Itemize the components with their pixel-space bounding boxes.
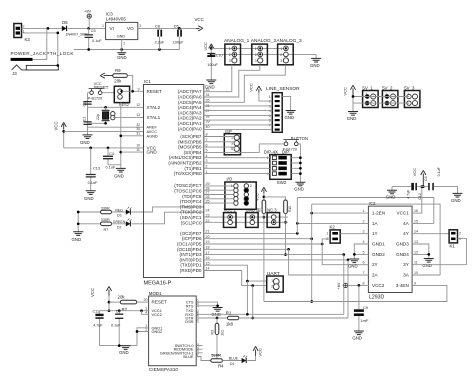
riser RXD to PD3 [343,255,345,315]
connector K1 [449,230,461,249]
svg-text:D1: D1 [230,362,235,366]
wire AREF [88,123,144,127]
svg-text:2.2uF: 2.2uF [155,40,165,44]
ground IC2 right [422,259,433,268]
wire XTAL2 [88,103,144,109]
wire 1A net riser [296,198,434,234]
svg-text:GND: GND [72,237,82,242]
svg-text:2: 2 [280,53,282,57]
resistor R6 330R [78,206,126,213]
svg-text:RED: RED [115,208,123,212]
wires sensor pins 3-8 to PA [204,106,272,130]
svg-text:7: 7 [269,124,271,128]
svg-text:(TDO)PC4: (TDO)PC4 [180,199,202,204]
resistor R1 1k8 on DTR net [196,311,348,327]
svg-text:2A: 2A [372,273,379,278]
net label VCC RESET [94,82,109,90]
svg-text:GND: GND [114,173,124,178]
svg-text:0.1uF: 0.1uF [88,181,98,185]
svg-text:(ADC5)PA5: (ADC5)PA5 [178,100,202,105]
capacitor C11 4.7uF [93,310,104,346]
svg-text:C13: C13 [93,166,100,170]
bus wire PD2 [204,259,350,262]
svg-text:1: 1 [280,47,282,51]
svg-text:GND: GND [117,55,127,60]
wire VCC1 riser [412,185,423,213]
wire AGND [121,132,144,136]
svg-text:SW2: SW2 [277,180,287,185]
svg-text:5V_1: 5V_1 [362,85,373,90]
svg-text:VCC: VCC [256,193,260,201]
svg-text:1: 1 [269,95,271,99]
module MOD1 CIEMSPA310 [144,291,200,373]
svg-text:(TCK)PC2: (TCK)PC2 [180,210,202,215]
wire 3A [412,274,440,276]
wire BLUE pin to R4 [196,357,211,361]
svg-text:R7: R7 [104,228,109,232]
svg-text:4Y: 4Y [403,231,409,236]
svg-text:(TOSC2)PC7: (TOSC2)PC7 [174,183,202,188]
svg-text:330R: 330R [101,218,110,222]
svg-text:1A: 1A [372,221,379,226]
svg-text:4: 4 [363,240,365,244]
svg-text:22p: 22p [96,114,100,120]
svg-text:6: 6 [269,119,271,123]
svg-text:XTAL1: XTAL1 [147,115,161,120]
svg-text:GND: GND [285,115,295,120]
svg-text:11: 11 [196,343,200,347]
capacitor C7 0.1uF [111,310,123,346]
svg-text:2: 2 [459,232,461,236]
ground under C13 [84,191,96,201]
svg-text:(ICP)PD6: (ICP)PD6 [182,236,202,241]
svg-text:AGND: AGND [147,133,158,138]
svg-text:(RXD)PD0: (RXD)PD0 [180,268,202,273]
gnd wire for LEDs [77,211,80,232]
svg-text:VCC: VCC [342,87,347,96]
wires GND3 GND4 [412,244,430,258]
svg-text:VI: VI [110,26,114,31]
svg-text:40: 40 [206,125,210,129]
svg-text:C9: C9 [363,305,369,310]
svg-text:C7: C7 [116,310,121,314]
capacitor C13 0.1uF [86,148,100,191]
svg-text:VCC: VCC [90,288,95,297]
IC1 port C labels [174,183,202,225]
svg-text:R4: R4 [218,363,224,368]
ground LEDs [72,232,84,242]
svg-text:8: 8 [363,281,365,285]
svg-text:330R: 330R [101,206,110,210]
diode D5 1N4007_SMD [62,20,89,36]
connector GND 2 [246,208,259,228]
svg-text:14: 14 [414,230,418,234]
svg-text:(MISO)PB6: (MISO)PB6 [178,139,202,144]
wire VCC1 line [100,309,149,312]
wires SW2 commons to gnd column [291,156,302,175]
svg-text:1: 1 [365,92,367,96]
svg-text:4: 4 [269,109,271,113]
svg-text:GND: GND [84,196,94,201]
resistor R10 pullup [284,200,292,256]
wire 3-4EN loop [312,285,447,301]
svg-text:VCC: VCC [248,83,253,92]
reset jumper RES2 [114,86,143,107]
IC1 right pin numbers [206,88,210,271]
svg-text:C4: C4 [109,152,114,156]
capacitor C6 100uF [173,25,184,50]
switch SW2 DIP-4X [264,150,291,186]
svg-text:R9: R9 [115,68,121,73]
svg-text:29: 29 [206,182,210,186]
svg-text:3: 3 [363,230,365,234]
svg-text:19: 19 [196,315,200,319]
wires I/O to PC7-PC3 [204,186,234,203]
capacitor C10 100uF [207,54,222,80]
IC1 port D labels [177,231,202,273]
wire CTS RTS to gnd [196,302,219,307]
svg-text:20k: 20k [118,295,126,300]
svg-text:37: 37 [206,109,210,113]
connector ANALOG_2 [251,38,277,65]
svg-text:0.1uF: 0.1uF [111,324,121,328]
ground CTS [211,308,222,317]
ground rail under regulator [74,48,179,51]
svg-text:11: 11 [414,261,418,265]
svg-text:(INT0)PD2: (INT0)PD2 [180,257,202,262]
wire VCC to IC1 [64,144,144,150]
connector LINE SENSOR [266,86,300,132]
wire sensor pin1 to gnd [282,96,290,110]
svg-text:1: 1 [271,279,273,283]
capacitor C8 2.2uF [155,25,165,50]
connector VCC 1 [224,208,237,228]
connector UART [267,271,284,292]
connector ANALOG_3 [276,38,302,65]
svg-text:5V_3: 5V_3 [404,85,415,90]
supply VCC for 5V headers [342,85,355,96]
svg-text:VCC2: VCC2 [372,283,385,288]
svg-text:L4940V05: L4940V05 [106,17,127,22]
svg-text:12: 12 [196,347,200,351]
wire 2A net riser [289,249,369,275]
svg-text:RESET: RESET [94,85,109,90]
svg-text:0.1uF: 0.1uF [92,39,102,43]
ground SW2 [294,182,305,191]
svg-text:VO: VO [127,26,134,31]
svg-text:(ADC3)PA3: (ADC3)PA3 [178,110,202,115]
svg-text:18: 18 [196,312,200,316]
resistor R2 20k [109,295,149,312]
svg-text:(SCL)PC0: (SCL)PC0 [181,220,202,225]
svg-text:3-4EN: 3-4EN [396,283,409,288]
LED D2 GREEN [113,219,132,230]
svg-text:(MOSI)PB5: (MOSI)PB5 [178,145,202,150]
supply VCC blue led [247,346,262,360]
supply VCC MOD1 [90,286,112,312]
svg-text:560R: 560R [211,352,221,357]
svg-text:(ADC6)PA6: (ADC6)PA6 [178,95,202,100]
svg-text:LINE_SENSOR: LINE_SENSOR [266,86,300,92]
svg-text:DIP-4X: DIP-4X [264,150,278,155]
svg-text:J3: J3 [12,71,17,76]
supply VCC line sensor [248,83,272,101]
wires SW2 to PB3-PB0 [204,158,270,174]
svg-text:17: 17 [196,308,200,312]
svg-text:GND: GND [386,194,396,199]
svg-text:C12: C12 [418,193,422,200]
svg-text:(TOSC1)PC6: (TOSC1)PC6 [174,189,202,194]
svg-text:10: 10 [414,271,418,275]
svg-text:9: 9 [414,281,416,285]
svg-text:(AIN1/OC0)PB3: (AIN1/OC0)PB3 [169,155,202,160]
svg-text:2Y: 2Y [372,262,378,267]
svg-text:VCC: VCC [412,168,417,177]
svg-text:5V_2: 5V_2 [382,85,393,90]
svg-text:13: 13 [196,350,200,354]
analog rail wires [211,48,316,54]
resistor R4 560R [211,352,242,368]
svg-text:DIP: DIP [282,150,289,155]
svg-text:5: 5 [231,147,233,151]
svg-text:1: 1 [363,209,365,213]
svg-text:(TMS)PC3: (TMS)PC3 [180,204,202,209]
svg-text:2: 2 [363,219,365,223]
svg-text:(T1)PB1: (T1)PB1 [184,166,202,171]
svg-text:2: 2 [271,284,273,288]
wire K2 pin2 to 2Y [322,239,368,265]
svg-text:GND2: GND2 [372,252,385,257]
svg-text:2: 2 [250,184,252,188]
svg-text:GND: GND [310,63,320,68]
capacitor C2 22p [82,102,91,107]
wire 4Y to K1 [412,233,449,235]
bus wire PD6 [204,237,313,240]
microcontroller IC1 MEGA16-P [144,79,204,287]
svg-text:1k8: 1k8 [226,321,234,326]
svg-text:GND3: GND3 [396,242,409,247]
svg-text:CIEMSPA310: CIEMSPA310 [149,367,179,373]
connector 5V_2 [382,85,398,107]
svg-text:3: 3 [269,105,271,109]
wire K3 pin1 down to jack [22,32,60,66]
svg-text:D5: D5 [62,20,68,25]
svg-text:1: 1 [229,47,231,51]
svg-text:GND: GND [117,35,125,39]
svg-text:(OC1A)PD5: (OC1A)PD5 [177,242,202,247]
ground under C9 [352,331,364,340]
resistor R3 2k2 [211,318,225,362]
svg-text:(INT1)PD3: (INT1)PD3 [180,252,202,257]
svg-text:I/O: I/O [227,177,233,182]
capacitor C1 22p [82,117,91,125]
svg-text:16: 16 [414,209,418,213]
svg-text:ANALOG_2: ANALOG_2 [251,38,277,44]
ground right of C3 [451,193,463,202]
IC1 port B labels [168,134,202,176]
svg-text:3: 3 [280,59,282,63]
svg-text:4.7uF: 4.7uF [407,189,411,199]
ground IC2 left [348,259,359,268]
wires ISP to PB7 PB6 PB5 [204,137,234,149]
bus wire PD5 to K2 [204,243,324,246]
wire PD0 to UART pin2 [204,271,267,287]
ground left of C12 [386,187,397,200]
svg-text:9: 9 [138,87,140,91]
svg-text:GREEN: GREEN [113,220,126,224]
ground analog rail [310,54,321,68]
wire PA6 to ANALOG_2 [204,65,260,97]
svg-text:GND: GND [80,140,90,145]
svg-text:GND: GND [451,198,461,203]
wires GND1 GND2 [353,244,368,259]
svg-text:C8: C8 [155,25,160,29]
5V header rails [352,95,409,103]
svg-text:(OC1B)PD4: (OC1B)PD4 [177,247,202,252]
wire PD1 to UART pin1 [204,265,267,282]
connector 5V_1 [362,85,378,107]
svg-text:ANALOG_3: ANALOG_3 [276,38,302,44]
svg-text:1: 1 [255,47,257,51]
svg-text:12: 12 [414,250,418,254]
vertical link UART1 to RXD net [246,281,248,314]
pushbutton S1 P-B1720 [88,88,115,100]
svg-text:R3: R3 [211,330,215,334]
svg-text:R1: R1 [226,311,232,316]
svg-text:RESET: RESET [152,300,168,305]
svg-text:3: 3 [229,59,231,63]
svg-text:1: 1 [407,92,409,96]
ground mid (AGND/C4) [114,168,126,178]
svg-text:(ADC4)PA4: (ADC4)PA4 [178,105,202,110]
svg-text:GND: GND [147,150,158,155]
LED D1 BLUE [229,355,247,366]
wire D5 to regulator input node [68,27,106,30]
svg-text:IC1: IC1 [144,79,151,84]
svg-text:3Y: 3Y [403,262,409,267]
svg-text:(SDA)PC1: (SDA)PC1 [180,215,202,220]
svg-text:GND: GND [294,187,304,192]
resistor R5 pullup [257,200,265,302]
svg-text:3: 3 [255,59,257,63]
wire K3 pin2 to D5 [22,27,62,30]
wire VCC2 stub [142,311,149,315]
connector NC 3 [267,208,280,228]
gnd rail left of crystal [80,93,93,145]
supply VCC arrow right [195,17,204,31]
svg-text:GND: GND [352,335,362,340]
ground line sensor [285,111,296,120]
capacitor C12 4.7uF [392,183,428,200]
svg-text:(AIN0/INT2)PB2: (AIN0/INT2)PB2 [168,161,202,166]
svg-text:VCC: VCC [257,348,262,357]
svg-text:1mF: 1mF [360,318,369,323]
wire PA7 to ANALOG_1 [204,65,232,92]
supply VCC pullups [256,187,286,201]
supply VCC analog rail [203,42,214,56]
svg-text:(T0/XCK)PB0: (T0/XCK)PB0 [174,171,202,176]
svg-text:GND4: GND4 [396,252,409,257]
svg-text:3A: 3A [403,273,410,278]
svg-text:3: 3 [139,24,141,28]
supply +8V [84,9,92,29]
wire crystal bottom to cap rail [88,122,107,125]
svg-text:(SCK)PB7: (SCK)PB7 [180,134,202,139]
svg-text:RESET: RESET [147,89,163,94]
IC1 port A labels [178,89,202,131]
svg-text:4A: 4A [403,221,410,226]
supply +8V IC2 [337,282,368,289]
wire K2 pin1 to 1Y [340,233,368,235]
svg-text:31: 31 [136,132,140,136]
svg-text:POWER_JACKPTH_LOCK: POWER_JACKPTH_LOCK [11,51,75,56]
svg-text:1-2EN: 1-2EN [372,211,385,216]
svg-text:2: 2 [255,53,257,57]
wire AVCC [64,127,144,131]
motor driver IC2 L293D [363,201,419,301]
svg-text:4.7uF: 4.7uF [93,324,103,328]
svg-text:(ADC0)PA0: (ADC0)PA0 [178,126,202,131]
svg-text:C6: C6 [174,25,179,29]
capacitor C4 0.1uF [103,148,121,169]
power jack J3 [11,28,60,75]
svg-text:+8V: +8V [84,9,92,14]
ground MOD1 [100,344,138,355]
svg-text:R10: R10 [288,206,292,212]
svg-text:GND: GND [348,263,358,268]
svg-text:BLUE: BLUE [229,356,239,360]
svg-text:BLUE: BLUE [183,354,194,359]
svg-text:2: 2 [269,100,271,104]
wire button to PB4 [204,144,284,153]
svg-text:(ADC1)PA1: (ADC1)PA1 [178,121,202,126]
svg-text:13: 13 [414,240,418,244]
pushbutton BUTTON P-B1720 [283,136,308,151]
svg-text:2: 2 [229,53,231,57]
svg-text:GND2: GND2 [152,329,163,334]
svg-text:VCC2: VCC2 [152,312,162,317]
svg-text:1: 1 [459,237,461,241]
bus wire PD3 [204,253,345,256]
svg-text:1: 1 [326,232,328,236]
wire GREEN led to PC2 [131,212,203,224]
vertical link UART2 to TXD net [252,286,254,318]
svg-text:11: 11 [136,148,140,152]
svg-text:(OC2)PD7: (OC2)PD7 [180,231,202,236]
svg-text:DSR: DSR [185,319,193,324]
svg-text:20: 20 [144,298,148,302]
capacitor C9 1mF [354,285,369,330]
connector I/O [225,177,256,210]
vertical gnd wire from RES2 [119,103,122,169]
wire button to gnd column [298,144,300,182]
connector 5V_3 [404,85,420,107]
svg-text:GND: GND [205,84,215,89]
svg-text:VCC: VCC [195,17,204,22]
svg-text:XTAL2: XTAL2 [147,105,161,110]
svg-text:20: 20 [196,319,200,323]
connector ANALOG_1 [224,38,250,65]
svg-text:MEGA16-P: MEGA16-P [144,281,172,287]
wire RXD long net [196,313,344,316]
svg-text:100uF: 100uF [173,40,184,44]
svg-text:MOD1: MOD1 [149,291,162,296]
svg-text:7: 7 [363,271,365,275]
svg-text:(ADC2)PA2: (ADC2)PA2 [178,116,202,121]
svg-text:R2: R2 [122,307,128,312]
svg-text:(TDI)PC5: (TDI)PC5 [182,194,202,199]
svg-text:15: 15 [414,219,418,223]
